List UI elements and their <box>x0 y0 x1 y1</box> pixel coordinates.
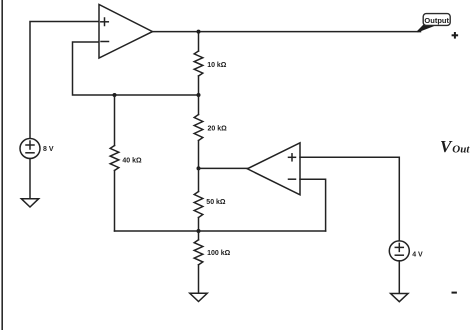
wire: U1 + input to 8V source top <box>30 22 99 139</box>
wire: U1 output to Output flag <box>153 31 421 33</box>
svg-text:50 kΩ: 50 kΩ <box>206 199 226 206</box>
node A: junction output / 10k top <box>197 30 201 34</box>
svg-text:100 kΩ: 100 kΩ <box>207 250 231 257</box>
svg-text:V: V <box>440 137 453 156</box>
Output flag box <box>423 14 450 26</box>
svg-text:Output: Output <box>424 16 449 25</box>
svg-text:10 kΩ: 10 kΩ <box>207 62 227 69</box>
resistor R5 100 kOhm <box>194 231 230 293</box>
node B: junction 10k/20k/feedback <box>197 93 201 97</box>
wire: 4V bottom to ground <box>398 261 400 294</box>
ground under 4V <box>391 294 408 302</box>
wire: U2 + input to 4V source <box>300 157 399 241</box>
voltage source V1 8 V <box>20 139 54 159</box>
left canvas border line <box>1 0 3 330</box>
op-amp U2 (points left) <box>247 143 300 195</box>
svg-text:40 kΩ: 40 kΩ <box>122 158 142 165</box>
Output flag pointer <box>418 25 434 32</box>
svg-text:8 V: 8 V <box>43 146 54 153</box>
node E: junction 50k/100k/bottom wire <box>197 229 201 233</box>
resistor R2 20 kOhm <box>194 95 227 168</box>
wire: U1 - input feedback loop to node between 10k and 20k <box>73 42 199 95</box>
wire: bottom rail <box>115 230 326 232</box>
resistor R3 40 kOhm <box>110 146 142 232</box>
ground under 100k <box>190 293 207 301</box>
voltage source V2 4 V <box>389 241 423 261</box>
plus label near Output <box>452 32 459 39</box>
resistor R4 50 kOhm <box>194 168 226 231</box>
minus label bottom right <box>452 292 457 294</box>
resistor R1 10 kOhm <box>194 32 227 95</box>
node C: junction 40k tap on feedback wire <box>113 93 117 97</box>
wire: node C down to 40k <box>114 95 116 146</box>
wire: node D to U2 output apex <box>199 167 248 169</box>
ground under 8V <box>21 199 38 207</box>
svg-text:4 V: 4 V <box>412 251 423 258</box>
wire: 8V bottom to ground <box>29 159 31 199</box>
V_Out label <box>440 137 470 156</box>
svg-text:Out: Out <box>452 144 470 156</box>
wire: U2 - input feedback down to bottom rail <box>300 179 326 231</box>
svg-text:20 kΩ: 20 kΩ <box>208 125 228 132</box>
op-amp U1 <box>99 5 153 59</box>
node D: junction 20k/50k/U2 output <box>197 166 201 170</box>
